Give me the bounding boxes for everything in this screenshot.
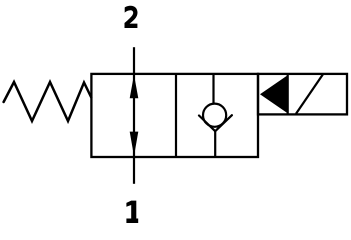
spring xyxy=(4,82,92,121)
check valve seat xyxy=(199,115,232,131)
wire port 2 to valve xyxy=(133,47,135,74)
wire valve to port 1 xyxy=(133,157,135,184)
check valve bottom stub wire xyxy=(214,131,216,158)
solenoid triangle xyxy=(260,75,288,113)
valve body xyxy=(91,74,258,157)
solenoid slash xyxy=(296,74,323,114)
port label 1 xyxy=(126,201,138,223)
check valve top stub wire xyxy=(212,74,214,105)
arrowhead up xyxy=(130,75,139,99)
solenoid divider xyxy=(287,74,289,115)
arrowhead down xyxy=(130,132,139,157)
solenoid box xyxy=(258,74,347,115)
body divider xyxy=(175,74,177,157)
check valve ball circle xyxy=(203,104,226,127)
port label 2 xyxy=(125,6,138,28)
flow path wire through body xyxy=(133,74,135,157)
